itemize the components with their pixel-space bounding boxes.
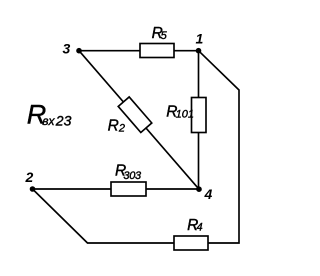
svg-text:1: 1 <box>196 30 204 46</box>
svg-text:вх: вх <box>42 114 55 128</box>
wire node1 to node4 (vertical) <box>198 51 200 189</box>
svg-text:4: 4 <box>204 186 213 202</box>
svg-text:R: R <box>108 118 119 135</box>
label R303 <box>115 162 142 182</box>
wire node3 to node4 (diagonal) <box>79 51 199 190</box>
node 4 <box>196 186 202 192</box>
label Rvx23 <box>27 100 72 130</box>
svg-text:5: 5 <box>161 30 168 42</box>
resistor R2 (rotated) <box>118 97 152 133</box>
resistor R5 <box>140 44 174 58</box>
resistor R303 <box>111 182 146 196</box>
wire node2 to node1 outer loop via R4 <box>33 51 240 243</box>
svg-text:2: 2 <box>25 169 34 185</box>
svg-text:101: 101 <box>176 109 194 121</box>
label R4 <box>187 217 203 234</box>
svg-text:23: 23 <box>55 112 72 128</box>
wire node3 to node1 (top) <box>79 50 199 52</box>
resistor R101 <box>192 98 207 133</box>
node 3 <box>76 48 82 54</box>
svg-text:3: 3 <box>63 40 71 56</box>
wire node2 to node4 (horizontal) <box>33 188 200 190</box>
label R2 <box>108 118 125 135</box>
resistor R4 <box>174 236 208 250</box>
label R101 <box>166 104 194 121</box>
node 1 <box>196 48 202 54</box>
svg-text:303: 303 <box>123 170 142 182</box>
node 2 <box>30 186 36 192</box>
svg-text:4: 4 <box>197 222 203 234</box>
svg-text:2: 2 <box>118 123 125 135</box>
label R5 <box>152 25 168 42</box>
